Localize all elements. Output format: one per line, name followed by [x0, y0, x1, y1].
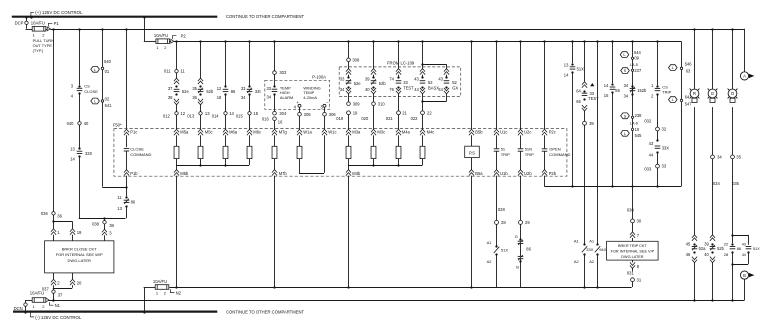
svg-text:13: 13: [117, 206, 122, 211]
connector P2b: [542, 170, 557, 176]
coil OPEN COMMAND: [542, 135, 571, 169]
node terminal 21: [386, 110, 408, 129]
label WINDING TEMP 4-20mA: [303, 85, 320, 100]
svg-text:DCP: DCP: [15, 21, 24, 26]
svg-text:44: 44: [649, 153, 654, 158]
svg-text:CLOSE: CLOSE: [84, 89, 98, 94]
contact 33t 33-34: [241, 85, 262, 100]
svg-text:B6a: B6a: [475, 171, 483, 176]
contact 51X A1-A2: [487, 224, 509, 264]
connector W1c: [322, 129, 337, 135]
svg-text:39: 39: [589, 121, 594, 126]
resistor R3: [223, 135, 228, 158]
svg-text:030: 030: [627, 207, 635, 212]
svg-text:34: 34: [624, 94, 629, 99]
label LA-6: [630, 121, 638, 125]
node terminal 35: [731, 155, 742, 160]
svg-text:10A/FU: 10A/FU: [30, 291, 44, 296]
wire: [52, 215, 72, 223]
node terminal 15: [236, 95, 259, 130]
svg-text:86: 86: [231, 89, 236, 94]
svg-text:TRIP: TRIP: [662, 90, 671, 95]
connector M3b: [346, 170, 361, 176]
connector P1b: [124, 170, 138, 187]
svg-text:G: G: [515, 234, 518, 239]
svg-text:35: 35: [736, 155, 741, 160]
node P1 label: [48, 21, 59, 26]
svg-text:12: 12: [180, 111, 185, 116]
svg-text:31: 31: [637, 277, 642, 282]
connector M5a: [174, 129, 189, 135]
connector M6c: [247, 129, 261, 135]
svg-text:A1: A1: [574, 238, 580, 243]
svg-text:52e: 52e: [182, 89, 190, 94]
svg-text:FOR INTERNAL SEE V/P: FOR INTERNAL SEE V/P: [611, 250, 655, 254]
svg-text:−: −: [326, 100, 329, 105]
label pull-turn-out-type: [33, 38, 55, 53]
wire: [657, 94, 659, 127]
contact 86 11-13: [117, 195, 136, 211]
svg-text:545: 545: [635, 133, 643, 138]
svg-text:43: 43: [649, 141, 654, 146]
node terminal 303: [273, 70, 287, 86]
svg-text:45: 45: [686, 241, 691, 246]
wire: [126, 206, 128, 219]
contact temp-alarm 33-34: [267, 85, 278, 99]
svg-text:TRIP: TRIP: [501, 152, 510, 157]
connector M3c: [371, 129, 385, 135]
svg-text:A: A: [743, 74, 746, 79]
lamp tag 544/09: [620, 50, 641, 61]
contact 152b 34-34: [624, 83, 647, 99]
wire: [102, 70, 104, 100]
connector M5b: [174, 170, 189, 176]
svg-text:F50*: F50*: [113, 123, 122, 128]
svg-text:540: 540: [104, 59, 112, 64]
connector drawout: [420, 69, 425, 77]
svg-text:P2: P2: [181, 34, 187, 39]
node terminal 306: [323, 112, 337, 130]
contact 52 GX 43-44: [438, 76, 458, 92]
svg-text:032: 032: [644, 119, 652, 124]
svg-text:M3b: M3b: [352, 171, 361, 176]
svg-text:M4a: M4a: [402, 129, 411, 134]
connector 20 (drawout): [70, 273, 82, 288]
node terminal 37: [42, 286, 63, 301]
connector drawout: [692, 235, 697, 241]
node terminal 29: [519, 220, 531, 225]
resistor R4: [247, 135, 252, 158]
wire resistor group 1 common: [176, 159, 250, 170]
connector U1c: [494, 129, 507, 135]
wire MR bus: [544, 186, 681, 188]
contact 94X A1-A2: [589, 238, 606, 264]
svg-text:14: 14: [564, 73, 569, 78]
resistor R9: [396, 135, 401, 158]
svg-text:A2: A2: [487, 259, 493, 264]
resistor R5: [272, 135, 277, 158]
svg-text:040: 040: [67, 121, 75, 126]
svg-text:G: G: [711, 91, 715, 96]
svg-text:51: 51: [501, 147, 506, 152]
svg-text:65: 65: [576, 99, 581, 104]
wire rail U1c: [496, 41, 498, 129]
node terminal 308: [347, 57, 360, 68]
svg-text:33: 33: [241, 86, 246, 91]
wire: [102, 103, 125, 188]
contact 86 14-16: [604, 83, 621, 98]
connector M4c: [420, 129, 434, 135]
svg-text:308: 308: [352, 57, 360, 62]
lamp tag 541/02: [91, 97, 112, 108]
wire rail 52BASX: [421, 41, 446, 68]
svg-text:303: 303: [279, 70, 287, 75]
wire lamp return bus BB2: [48, 299, 745, 301]
contact 52e 37-38: [168, 85, 190, 100]
connector drawout: [710, 235, 715, 241]
connector drawout: [422, 88, 449, 102]
svg-text:546: 546: [685, 62, 693, 67]
wire rail P1c: [126, 29, 128, 130]
svg-text:13: 13: [205, 111, 210, 116]
svg-text:33: 33: [662, 164, 667, 169]
svg-text:19: 19: [353, 110, 358, 115]
svg-text:19: 19: [77, 230, 82, 235]
wire: [571, 72, 573, 187]
wire M7 rail: [273, 159, 275, 289]
svg-text:014: 014: [212, 113, 220, 118]
svg-text:46: 46: [686, 252, 691, 257]
svg-text:28: 28: [501, 220, 506, 225]
svg-text:035: 035: [732, 181, 740, 186]
svg-text:28: 28: [724, 252, 729, 257]
contact CS TRIP 1-2: [651, 83, 672, 99]
svg-text:43: 43: [438, 76, 443, 81]
svg-text:ALARM: ALARM: [280, 95, 293, 100]
node (-) bus label callout: [31, 312, 82, 320]
svg-text:DWG.LATER: DWG.LATER: [67, 258, 91, 263]
svg-text:34: 34: [267, 94, 272, 99]
coil 51N TRIP: [518, 135, 534, 169]
wire close-ckt output: [53, 288, 72, 290]
svg-text:(-) 125V DC CONTROL: (-) 125V DC CONTROL: [35, 315, 82, 320]
svg-text:TRIP: TRIP: [525, 152, 534, 157]
svg-text:39: 39: [365, 76, 370, 81]
svg-text:N1: N1: [55, 303, 61, 308]
svg-text:52b: 52b: [379, 81, 387, 86]
svg-text:(+) 125V DC CONTROL: (+) 125V DC CONTROL: [35, 10, 83, 15]
connector drawout: [396, 88, 401, 111]
fuse P1 10A/FU: [31, 21, 51, 38]
svg-text:S: S: [624, 68, 627, 73]
wire continue-to-other-compartment (top): [226, 14, 305, 19]
connector B5b: [469, 129, 483, 135]
wire rail 94X: [597, 41, 599, 244]
svg-text:020: 020: [361, 116, 369, 121]
wire rail 036: [53, 29, 55, 212]
svg-text:11: 11: [180, 69, 185, 74]
contact 33 TEST 74-76: [389, 76, 414, 92]
svg-text:10A/FU: 10A/FU: [154, 33, 168, 38]
svg-text:031: 031: [627, 271, 635, 276]
wire rail M5a top: [176, 41, 178, 69]
connector P1c: [124, 129, 137, 147]
wire GX parallel branch: [444, 64, 449, 77]
node terminal 38: [92, 218, 114, 228]
resistor R7: [346, 135, 351, 158]
svg-text:74: 74: [389, 76, 394, 81]
node (+) bus label callout: [30, 10, 83, 18]
wire resistor group 2 common: [348, 159, 423, 170]
svg-text:11: 11: [117, 195, 122, 200]
block BRKR CLOSE CKT: [45, 241, 114, 273]
contact 33X 13-14: [70, 146, 92, 161]
connector M7g: [272, 129, 287, 135]
svg-text:M6a: M6a: [229, 129, 238, 134]
svg-text:39: 39: [704, 241, 709, 246]
lamp tag 545/10: [621, 127, 642, 138]
node terminal 19: [336, 110, 358, 129]
wire rail 303: [274, 41, 276, 71]
connector drawout: [710, 257, 715, 300]
svg-text:14: 14: [229, 111, 234, 116]
svg-text:A1: A1: [487, 240, 493, 245]
node P2 label: [172, 34, 186, 39]
svg-text:22: 22: [427, 110, 432, 115]
svg-text:32: 32: [662, 127, 667, 132]
svg-text:028: 028: [498, 207, 506, 212]
node B (to other compartment): [740, 271, 754, 300]
node terminal 34: [711, 155, 723, 160]
svg-text:15: 15: [253, 111, 258, 116]
svg-text:P2b: P2b: [549, 171, 557, 176]
resistor R6: [297, 135, 302, 158]
connector B6a: [469, 170, 483, 176]
svg-text:43: 43: [414, 76, 419, 81]
wire: [732, 159, 740, 235]
svg-text:(TYP.): (TYP.): [33, 48, 44, 53]
node terminal 40: [67, 121, 89, 126]
wire: [583, 254, 585, 288]
svg-text:51X: 51X: [577, 67, 585, 72]
svg-text:29: 29: [525, 220, 530, 225]
wire rail lamp O: [732, 29, 734, 89]
connector 8 (drawout): [630, 260, 640, 269]
connector 1 (drawout): [51, 221, 60, 241]
svg-text:M5a: M5a: [180, 129, 189, 134]
svg-text:4-20mA: 4-20mA: [303, 95, 317, 100]
node terminal 310: [361, 101, 385, 129]
wire: [611, 93, 613, 188]
svg-text:LA-6: LA-6: [630, 121, 638, 125]
coil 51 TRIP: [494, 135, 510, 169]
wire rail 310: [373, 41, 375, 68]
wire rail M6c top: [249, 41, 251, 86]
svg-text:B: B: [516, 264, 519, 269]
svg-text:10A/FU: 10A/FU: [31, 21, 45, 26]
wire rail 33TEST: [398, 41, 400, 68]
svg-text:305: 305: [304, 112, 312, 117]
svg-text:33: 33: [403, 80, 408, 85]
svg-text:038: 038: [92, 222, 100, 227]
svg-text:20: 20: [77, 280, 82, 285]
svg-text:FROM LC-109: FROM LC-109: [387, 61, 415, 66]
svg-text:U1b: U1b: [500, 171, 508, 176]
svg-text:237: 237: [634, 68, 642, 73]
svg-text:34: 34: [241, 95, 246, 100]
wire: [596, 254, 598, 288]
resistor R2: [198, 135, 203, 158]
svg-text:94X: 94X: [599, 247, 606, 252]
svg-text:M5c: M5c: [205, 129, 213, 134]
wire rail lamps 540/541: [102, 29, 104, 67]
svg-text:A2: A2: [589, 259, 595, 264]
svg-text:10: 10: [635, 127, 640, 132]
wire: [79, 93, 81, 121]
wire rail 29: [520, 176, 522, 221]
connector M6a: [223, 129, 238, 135]
wire trip feed: [627, 187, 635, 220]
wire rail 86-right: [612, 41, 614, 83]
svg-text:33X: 33X: [586, 247, 593, 252]
wire rail 51X: [572, 41, 574, 63]
svg-text:33: 33: [340, 76, 345, 81]
contact 52a 45-46: [686, 241, 706, 256]
svg-text:51X: 51X: [753, 247, 760, 251]
svg-text:34: 34: [624, 83, 629, 88]
wire M5b exit: [175, 176, 177, 289]
lamp tag 546/63: [669, 62, 693, 74]
node junction: [125, 186, 127, 196]
svg-text:LA-5: LA-5: [630, 63, 638, 67]
connector U2b: [518, 170, 532, 176]
svg-text:P-100A: P-100A: [312, 75, 326, 80]
svg-text:FOR INTERNAL SEE W/P: FOR INTERNAL SEE W/P: [56, 252, 103, 257]
connector U1b: [494, 170, 508, 176]
svg-text:012: 012: [163, 113, 171, 118]
block F50 interface (dashed): [113, 123, 567, 177]
svg-text:52e: 52e: [354, 81, 362, 86]
node P-100A terminal 5 (-): [321, 100, 329, 112]
svg-text:01: 01: [105, 69, 110, 74]
svg-text:U2b: U2b: [524, 171, 532, 176]
svg-text:034: 034: [713, 181, 721, 186]
svg-text:86: 86: [615, 88, 620, 93]
svg-text:16: 16: [604, 93, 609, 98]
svg-text:13: 13: [70, 146, 75, 151]
wire rail lamp G: [712, 29, 714, 89]
svg-text:544: 544: [634, 50, 642, 55]
wire rail 28: [497, 176, 506, 221]
svg-text:P1b: P1b: [130, 171, 138, 176]
svg-text:51X: 51X: [501, 248, 508, 253]
svg-text:12: 12: [217, 86, 222, 91]
contact 51X 13-14: [564, 63, 584, 78]
svg-text:021: 021: [386, 116, 394, 121]
wire (-) 125V DC control bus: [13, 311, 217, 313]
svg-text:38: 38: [168, 95, 173, 100]
connector M4a: [396, 129, 411, 135]
svg-text:M3c: M3c: [377, 129, 385, 134]
wire rail U2c: [520, 41, 522, 129]
svg-text:U2c: U2c: [524, 129, 531, 134]
node DCN terminal: [14, 300, 33, 314]
node terminal 13: [187, 111, 210, 129]
node P2 bus junctions: [175, 40, 658, 42]
svg-text:013: 013: [187, 113, 195, 118]
connector drawout: [198, 99, 203, 112]
connector drawout: [371, 69, 376, 77]
contact 52b 35-36: [192, 85, 214, 100]
wire (+) 125V DC control bus: [12, 16, 218, 18]
block P.S: [465, 135, 480, 169]
node terminal 14: [212, 95, 235, 130]
node P1 bus junctions: [52, 28, 733, 30]
connector drawout: [346, 88, 351, 102]
svg-text:304: 304: [279, 111, 287, 116]
node terminal 304: [273, 111, 287, 116]
svg-text:B: B: [743, 273, 746, 278]
connector drawout: [371, 88, 376, 102]
svg-text:M7g: M7g: [279, 129, 288, 134]
wire rail lamp-tags: [631, 41, 633, 187]
connector U2c: [518, 129, 531, 135]
connector drawout: [174, 99, 179, 112]
node terminal 31: [627, 268, 642, 287]
block FROM LC-109 (dashed): [339, 61, 461, 97]
coil CLOSE COMMAND: [124, 147, 152, 170]
wire: [657, 152, 659, 164]
connector drawout: [174, 73, 179, 84]
tag 237: [621, 68, 642, 74]
svg-text:O: O: [731, 91, 735, 96]
svg-text:37: 37: [58, 293, 63, 298]
svg-text:33: 33: [267, 86, 272, 91]
svg-text:BRKR TRIP CKT: BRKR TRIP CKT: [618, 244, 647, 248]
wire: [694, 107, 696, 235]
svg-text:033: 033: [644, 167, 652, 172]
lamp O: [728, 89, 738, 103]
svg-text:21: 21: [402, 110, 407, 115]
connector P2c: [542, 129, 556, 135]
contact 51X 43-44: [742, 242, 760, 256]
connector M3a: [346, 129, 361, 135]
svg-text:52: 52: [428, 80, 433, 85]
svg-text:M3a: M3a: [352, 129, 361, 134]
svg-text:M5b: M5b: [180, 171, 189, 176]
svg-text:52a: 52a: [699, 246, 707, 251]
contact 52b 39-40: [365, 76, 386, 92]
wire M3b exit: [347, 176, 349, 289]
svg-text:37: 37: [168, 86, 173, 91]
wire rail M5c top: [198, 41, 203, 84]
node terminal 16: [262, 117, 283, 130]
svg-text:A1: A1: [589, 238, 595, 243]
contact 33X A1-A2: [574, 238, 594, 264]
connector drawout: [346, 69, 351, 77]
contact CS CLOSE 3-4: [71, 83, 98, 98]
wire: [496, 254, 498, 287]
svg-text:34: 34: [717, 155, 722, 160]
wire: [732, 107, 734, 155]
svg-text:M7b: M7b: [279, 171, 288, 176]
label TEMP HIGH ALARM: [280, 85, 293, 100]
svg-text:40: 40: [704, 252, 709, 257]
wire rail P2c: [544, 41, 546, 129]
connector drawout: [396, 69, 401, 77]
node DCP terminal: [15, 16, 33, 29]
svg-text:14: 14: [604, 83, 609, 88]
